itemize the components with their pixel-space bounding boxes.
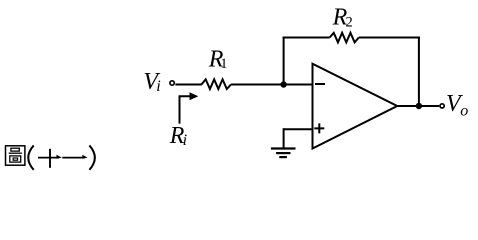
op-amp inverting pin (minus sign): [315, 83, 325, 85]
caption: character 圖: [6, 146, 25, 165]
wire: R1 to op-amp inverting input: [231, 84, 313, 86]
output terminal circle (Vo): [440, 104, 444, 108]
wire: feedback top left segment: [283, 37, 330, 39]
svg-text:1: 1: [220, 56, 227, 72]
wire: ground to non-inverting input: [284, 128, 313, 130]
wire: feedback left vertical: [283, 37, 285, 85]
resistor R1: [202, 79, 232, 89]
caption: open parenthesis: [28, 145, 33, 169]
wire: ground stem vertical: [283, 128, 285, 148]
op-amp non-inverting pin (plus sign): [314, 123, 324, 133]
svg-text:i: i: [156, 78, 160, 95]
node: output junction dot: [416, 103, 422, 109]
op-amp U1 triangle: [313, 64, 398, 149]
wire: op-amp output to output terminal: [396, 105, 439, 107]
caption: character 一: [62, 155, 87, 159]
node: inverting input junction dot: [280, 81, 286, 87]
input resistance arrow Ri: [180, 96, 191, 123]
svg-text:o: o: [460, 103, 468, 120]
input terminal circle (Vi): [170, 81, 174, 85]
wire: feedback right vertical: [418, 37, 420, 107]
ground: [271, 149, 296, 158]
wire: feedback top right segment: [359, 37, 420, 39]
caption: close parenthesis: [89, 145, 94, 169]
svg-text:i: i: [183, 132, 187, 149]
resistor R2: [330, 33, 359, 43]
svg-text:2: 2: [346, 14, 353, 30]
wire: input terminal to R1: [175, 84, 201, 86]
caption: character 十: [38, 149, 62, 168]
